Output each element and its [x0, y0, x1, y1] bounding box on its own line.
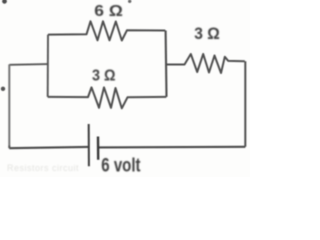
wire: right outer vertical wire [244, 61, 246, 147]
wire: left outer vertical wire [8, 64, 10, 148]
wire: bottom right wire from battery short plate to right corner [99, 146, 246, 149]
svg-text:Resistors circuit: Resistors circuit [7, 163, 79, 173]
wire: left connector from outer left wire to parallel box left side [9, 63, 47, 66]
artifact: dark bullet dot top-left [2, 0, 7, 4]
svg-text:6 volt: 6 volt [101, 155, 141, 176]
svg-text:3 Ω: 3 Ω [194, 25, 220, 43]
resistor R3 3-ohm series zigzag [166, 54, 245, 73]
wire: parallel box left vertical side [47, 35, 49, 97]
resistor R2 3-ohm bottom branch zigzag [48, 87, 167, 108]
resistor R1 6-ohm top branch zigzag [48, 21, 165, 40]
artifact: small dot near top right of 6-ohm label [128, 0, 131, 3]
svg-text:3 Ω: 3 Ω [92, 68, 116, 85]
node: bottom-left corner junction [8, 146, 10, 148]
battery B1 long plate [88, 124, 90, 166]
battery B1 short plate [97, 137, 100, 160]
svg-text:6 Ω: 6 Ω [94, 3, 123, 20]
artifact: faint ghost text bottom-left [7, 163, 79, 173]
artifact: dark bullet dot left middle [1, 87, 5, 91]
wire: bottom left wire from corner to battery long plate [9, 147, 88, 148]
wire: parallel box right vertical side [165, 31, 168, 97]
